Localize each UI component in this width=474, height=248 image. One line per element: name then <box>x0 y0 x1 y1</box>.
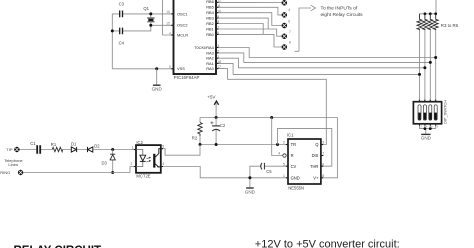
diode D2 <box>88 147 93 152</box>
svg-text:DIP_SWITCH: DIP_SWITCH <box>443 100 448 124</box>
pad 7 <box>282 33 288 39</box>
svg-text:TIP: TIP <box>6 147 13 152</box>
svg-text:16: 16 <box>166 10 170 14</box>
555 pin labels right <box>310 142 319 180</box>
junction VSS/GND <box>155 67 158 70</box>
ground GND under DIP <box>421 124 439 140</box>
svg-text:2: 2 <box>131 162 133 166</box>
svg-text:5: 5 <box>169 65 171 69</box>
svg-text:Q: Q <box>315 142 318 147</box>
opto phototransistor <box>153 149 161 168</box>
junction DIP rail b <box>429 127 432 130</box>
junction TIP/D3 <box>111 148 114 151</box>
wire RB4 to pad6 <box>216 13 281 26</box>
annotation: To the INPUTs of eight Relay Circuits <box>321 6 364 18</box>
svg-text:V+: V+ <box>313 175 319 180</box>
svg-text:1: 1 <box>283 174 285 178</box>
svg-text:5: 5 <box>283 162 285 166</box>
junction RA4 line/R6 column <box>434 56 437 59</box>
DIP switch element 2 <box>423 105 426 120</box>
wire RING line <box>23 167 136 173</box>
DIP pin stubs <box>420 100 436 126</box>
svg-text:RB0: RB0 <box>206 32 214 37</box>
pad 4 <box>282 0 288 6</box>
svg-text:C5: C5 <box>266 169 272 174</box>
svg-text:eight Relay Circuits: eight Relay Circuits <box>321 12 364 18</box>
svg-text:CV: CV <box>291 164 297 169</box>
pin label VSS (5) <box>169 65 185 71</box>
svg-text:RA3: RA3 <box>206 50 214 55</box>
power +5V symbol <box>207 94 218 117</box>
wire DIP bottom rail <box>420 124 436 134</box>
wire RA3 long line <box>216 53 430 63</box>
wire column R3 to DIP <box>419 30 421 102</box>
junction rail/R6 <box>434 12 437 15</box>
junction CV-gnd drop on GND line <box>248 176 251 179</box>
svg-text:D3: D3 <box>102 160 108 165</box>
junction C4/left vertical <box>111 29 114 32</box>
capacitor C5 <box>261 163 265 170</box>
svg-text:RB4: RB4 <box>206 10 214 15</box>
svg-text:TR: TR <box>291 142 297 147</box>
svg-text:1: 1 <box>132 146 134 150</box>
resistor R2 <box>198 118 202 145</box>
pin label MCLR (4) <box>169 31 188 37</box>
svg-text:6: 6 <box>288 20 290 24</box>
junction TR/R2 <box>199 143 202 146</box>
svg-text:C1: C1 <box>30 141 36 146</box>
svg-text:R3 to R6: R3 to R6 <box>441 23 459 28</box>
wire MCLR from top <box>163 0 174 35</box>
capacitor C3 <box>120 11 123 18</box>
wire +5V feed to resistor rail <box>420 0 437 14</box>
svg-text:R1: R1 <box>51 142 57 147</box>
ground GND under 555 <box>245 188 256 194</box>
wire +5V rail <box>200 117 337 119</box>
wire column R6 to DIP <box>435 30 437 102</box>
IC U1 PIC16F84AP body <box>174 0 217 74</box>
pin label OSC1 (16) <box>166 10 187 16</box>
svg-text:GND: GND <box>291 175 300 180</box>
junction rail/R4 <box>424 12 427 15</box>
IC1 NE555N body <box>288 139 321 184</box>
svg-text:To the INPUTs of: To the INPUTs of <box>321 6 358 12</box>
bracket and arrow to relay circuits <box>295 5 316 51</box>
pad numbers <box>288 8 291 45</box>
wire THR loop over top <box>278 128 332 166</box>
junction rail/R5 <box>429 12 432 15</box>
svg-text:D2: D2 <box>94 143 100 148</box>
junction rail/+5V <box>215 116 218 119</box>
555 DIS stub pin7 <box>321 155 324 157</box>
wire RA2 long line <box>216 58 425 68</box>
svg-text:THR: THR <box>310 164 318 169</box>
svg-text:RB3: RB3 <box>206 16 214 21</box>
svg-text:C2: C2 <box>220 123 226 128</box>
svg-text:RB6: RB6 <box>206 0 214 4</box>
diode D1 <box>71 147 76 152</box>
junction TR/C2 <box>215 143 218 146</box>
svg-text:4: 4 <box>278 152 280 156</box>
svg-text:RB2: RB2 <box>206 21 214 26</box>
PIC pin stubs <box>171 2 218 68</box>
svg-text:4: 4 <box>288 8 290 12</box>
svg-text:+12V to +5V converter circuit:: +12V to +5V converter circuit: <box>255 239 400 248</box>
555 R inversion bubble pin4 <box>283 154 286 157</box>
svg-text:MCT2E: MCT2E <box>136 173 150 178</box>
svg-text:4: 4 <box>169 31 171 35</box>
svg-text:RB5: RB5 <box>206 5 214 10</box>
555 pin numbers <box>278 141 324 178</box>
svg-text:15: 15 <box>166 22 170 26</box>
555 pin labels left <box>291 142 300 180</box>
svg-text:IC1: IC1 <box>287 133 294 138</box>
wire V+ drop from rail <box>321 118 338 178</box>
svg-text:RA0: RA0 <box>206 66 214 71</box>
IC2 MCT2E body <box>136 145 161 173</box>
wire VSS line <box>112 68 173 70</box>
wire OSC2/C4 net <box>112 25 173 31</box>
svg-text:8: 8 <box>289 41 291 45</box>
junction RA2 line/R4 column <box>423 66 426 69</box>
svg-text:VSS: VSS <box>177 66 185 71</box>
555 pin stubs <box>286 145 323 178</box>
pin numbers right side <box>217 0 221 69</box>
wire RA1 long line <box>216 63 420 74</box>
svg-text:4: 4 <box>162 162 164 166</box>
resistor R3 <box>417 14 422 30</box>
pad 5 <box>282 12 288 18</box>
junction RA3 line/R5 column <box>429 61 432 64</box>
crystal Q1 <box>147 14 154 25</box>
svg-text:DIS: DIS <box>312 153 319 158</box>
junction RA1 line/R3 column <box>418 73 421 76</box>
capacitor C4 <box>120 28 123 35</box>
wire RB6 to pad4 <box>216 1 281 3</box>
svg-text:R: R <box>291 153 294 158</box>
svg-text:MCLR: MCLR <box>177 33 188 38</box>
wire OSC1 net: left vertical and top line <box>112 14 173 69</box>
junction RING/D3 <box>111 171 114 174</box>
wire RB2 step <box>216 24 263 35</box>
svg-text:GND: GND <box>152 87 163 92</box>
svg-text:7: 7 <box>289 30 291 34</box>
capacitor C1 <box>37 145 40 154</box>
wire RA4 long line <box>216 48 436 58</box>
wire TR line <box>200 144 288 146</box>
pin labels RB6..RB0 right side <box>194 0 215 71</box>
svg-text:C4: C4 <box>119 41 125 46</box>
wire column R4 to DIP <box>424 30 426 102</box>
pin label OSC2 (15) <box>166 22 187 28</box>
opto pin numbers <box>131 144 165 166</box>
resistor R5 <box>428 14 433 30</box>
svg-text:5: 5 <box>162 144 164 148</box>
junction DIP rail a <box>424 127 427 130</box>
svg-text:PIC16F84AP: PIC16F84AP <box>174 75 200 80</box>
svg-text:C3: C3 <box>119 1 125 6</box>
DIP pin numbers top <box>418 98 436 102</box>
resistor R4 <box>422 14 427 30</box>
svg-text:R2: R2 <box>192 135 198 140</box>
junction OSC2/crystal <box>149 24 152 27</box>
svg-text:GND: GND <box>421 135 432 140</box>
diode D3 <box>110 150 115 173</box>
wire RB3 step <box>216 18 268 29</box>
pad 8 <box>282 44 288 50</box>
svg-text:+5V: +5V <box>207 94 216 99</box>
svg-text:Q1: Q1 <box>143 6 149 11</box>
resistor R6 <box>433 14 438 30</box>
pad RING <box>18 170 23 175</box>
switch S1 DIP_SWITCH body <box>413 102 441 124</box>
wire TIP line <box>20 149 136 151</box>
svg-text:OSC2: OSC2 <box>177 23 188 28</box>
opto LED <box>136 150 150 167</box>
svg-text:RING: RING <box>0 170 10 175</box>
svg-text:T0CKI/RA4: T0CKI/RA4 <box>194 45 215 50</box>
wire RA0 to 555 Q <box>216 69 326 145</box>
wire RB5 to pad5 <box>216 7 281 15</box>
wire RB0 to pad8 <box>216 34 281 47</box>
capacitor C2 polarized <box>210 118 220 145</box>
junction rail/R-pin drop <box>270 116 273 119</box>
svg-text:Lines: Lines <box>8 162 18 167</box>
svg-text:NE555N: NE555N <box>288 186 304 191</box>
label Telephone Lines <box>4 158 23 167</box>
wire column R5 to DIP <box>429 30 431 102</box>
svg-text:GND: GND <box>245 189 256 194</box>
wire opto collector to TR line <box>161 145 200 156</box>
svg-text:OSC1: OSC1 <box>177 11 188 16</box>
wire RB1 to pad7 <box>216 29 281 36</box>
svg-text:D1: D1 <box>71 142 77 147</box>
resistor R1 <box>52 147 63 151</box>
junction OSC1/crystal <box>149 12 152 15</box>
ground GND under VSS <box>152 69 163 92</box>
DIP switch element 4 <box>434 105 437 120</box>
DIP switch element 1 <box>418 105 421 120</box>
wire opto emitter to GND line <box>161 167 288 178</box>
pad TIP <box>14 147 19 152</box>
wire CV line with C5 <box>250 166 288 188</box>
svg-text:RB1: RB1 <box>206 26 214 31</box>
wire R pin drop <box>272 118 283 156</box>
junction TR/THR loop <box>276 143 279 146</box>
opto pin stubs <box>134 149 163 167</box>
svg-text:2: 2 <box>283 141 285 145</box>
pad 6 <box>282 23 288 29</box>
svg-text:IC2: IC2 <box>136 140 143 145</box>
DIP switch element 3 <box>429 105 432 120</box>
